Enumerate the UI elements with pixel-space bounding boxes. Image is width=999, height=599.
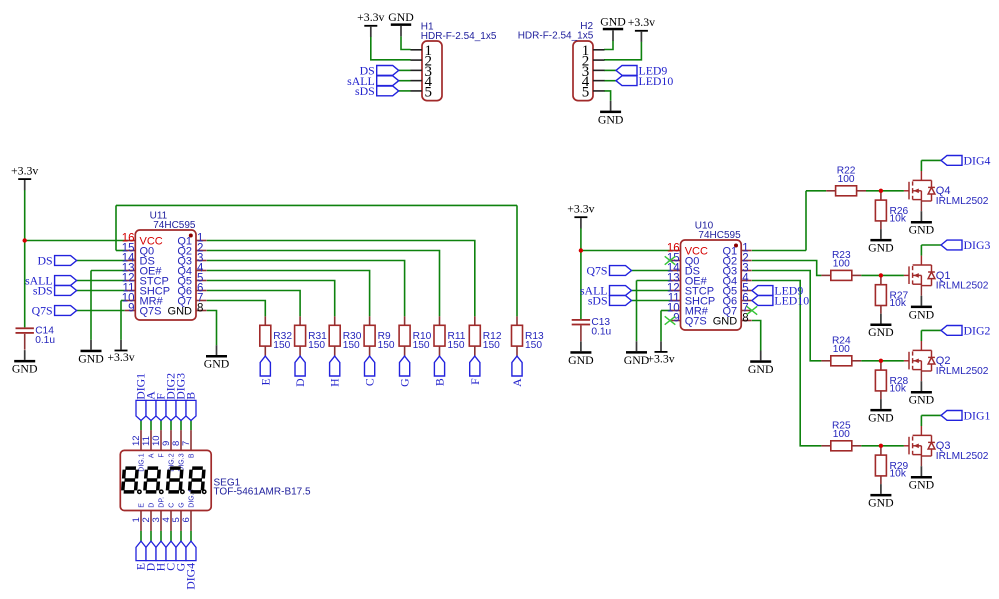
svg-text:E: E [139,503,146,508]
net flag DIG4 at SEG1 bottom [186,541,196,561]
ground H2 pin5 GND [598,101,624,127]
wire SEG1 top pin 8 [180,421,182,431]
7-segment display SEG1 TOF-5461AMR-B17.5 [120,373,311,590]
capacitor C13 [572,317,612,341]
wire DS to U11 pin14 [77,260,125,262]
header H2 HDR-F-2.54_1x5 [573,41,605,101]
svg-text:+3.3v: +3.3v [567,202,594,216]
wire U10 Q3 to R24 [752,271,822,361]
pin 7 (Q7) of U11 [196,300,207,302]
IC U11 74HC595 [122,211,207,321]
wire +3.3v to U11 VCC [25,240,125,242]
svg-text:C: C [169,503,176,508]
svg-text:IRLML2502: IRLML2502 [936,281,989,292]
no-connect X U10 Q7 [747,306,758,314]
svg-text:GND: GND [12,362,38,376]
decimal point dp1 [138,490,141,493]
svg-text:150: 150 [413,340,430,351]
net flag sDS at U11 [33,284,77,298]
resistor R26 [875,193,908,229]
svg-text:Q7S: Q7S [32,304,53,318]
wire Q7S to U11 pin9 [77,310,125,312]
net flag sALL at U10 [580,284,632,298]
svg-text:GND: GND [600,15,626,29]
svg-text:Q7S: Q7S [587,264,608,278]
svg-text:IRLML2502: IRLML2502 [936,366,989,377]
net flag G at SEG1 bottom [176,541,186,561]
pin 8 (GND) of U11 [196,310,207,312]
ground Q2 source GND [909,381,935,407]
wire sDS to U11 SHCP [77,290,125,292]
wire gate net y=275.4 [861,274,904,276]
wire +3.3v to H2 pin2 [604,42,641,60]
resistor R25 [821,420,861,450]
svg-text:H: H [328,378,342,387]
svg-text:10k: 10k [890,298,907,309]
resistor R9 [364,316,395,356]
wire U11 Q0 riser [115,205,117,250]
pin 15 (Q0) of U10 [670,260,681,262]
pin 9 (Q7S) of U10 [670,320,681,322]
wire U10 GND [752,321,761,351]
net flag DIG3 at SEG1 top [176,400,186,420]
svg-text:HDR-F-2.54_1x5: HDR-F-2.54_1x5 [421,31,497,42]
svg-text:GND: GND [909,223,935,237]
net flag DIG4 [941,154,990,168]
net flag D (segment net) [293,356,307,387]
net flag DIG3 [941,238,990,252]
ground R27 GND [868,314,894,340]
wire H2 pin5 to GND [604,91,611,101]
pin 1 (E) of SEG1 [140,511,142,531]
svg-text:Q7S: Q7S [685,315,707,327]
wire U10 Q1 lead [752,250,806,252]
wire sALL to U11 STCP [77,280,125,282]
pin 4 (Q4) of U10 [741,280,752,282]
net flag DIG2 at SEG1 top [166,400,176,420]
svg-text:B: B [189,453,196,458]
ground H2 GND [600,15,626,41]
svg-text:sDS: sDS [588,294,608,308]
pin 5 (Q5) of U11 [196,280,207,282]
decimal point dp2 [160,490,163,493]
wire Q2-R11 [207,251,440,317]
pin 7 (B) of SEG1 [190,430,192,450]
wire SEG1 bottom pin 2 [150,531,152,541]
net flag B at SEG1 top [186,400,196,420]
wire Q3-R10 [207,261,405,317]
wire U11 GND [207,311,217,346]
svg-text:150: 150 [483,340,500,351]
wire U10 OE# to GND [636,281,638,342]
pin 8 (DIG.3) of SEG1 [180,430,182,450]
svg-text:DIG2: DIG2 [964,324,991,338]
pin 6 (DIG.4) of SEG1 [190,511,192,531]
net flag sALL [347,74,399,88]
7-seg digit 2 [145,468,159,492]
svg-text:G: G [398,378,412,387]
svg-text:sDS: sDS [33,284,53,298]
svg-text:DIG1: DIG1 [964,409,991,423]
decimal point dp4 [203,490,206,493]
wire drain riser y=445.8 [920,415,922,426]
net flag sDS [355,84,399,98]
pin 14 (DS) of U10 [670,270,681,272]
wire SEG1 top pin 11 [150,421,152,431]
svg-text:0.1u: 0.1u [35,335,55,346]
svg-text:+3.3v: +3.3v [628,15,655,29]
net flag DIG1 [941,409,990,423]
pin 12 (STCP) of U10 [670,290,681,292]
7-seg digit 3 [167,468,181,492]
junction R25/R29 junction [879,444,883,448]
svg-text:5: 5 [425,84,433,100]
header H1 HDR-F-2.54_1x5 [411,41,443,101]
svg-text:TOF-5461AMR-B17.5: TOF-5461AMR-B17.5 [214,487,312,498]
ground Q1 source GND [909,296,935,322]
resistor R32 [260,316,293,356]
wire Q1 riser to R22 [805,191,807,251]
junction R24/R28 junction [879,359,883,363]
svg-text:+3.3v: +3.3v [107,350,134,364]
resistor R10 [399,316,432,356]
svg-text:0.1u: 0.1u [591,327,611,338]
net flag DS [360,64,399,78]
pin 10 (MR#) of U10 [670,310,681,312]
svg-text:+3.3v: +3.3v [11,163,38,177]
net flag sALL at U11 [25,274,77,288]
pin 4 of H2 [593,80,605,82]
transistor Q4 IRLML2502 [904,171,935,211]
wire U10 Q4 to R25 [752,281,822,446]
pin 4 (Q4) of U11 [196,270,207,272]
resistor R23 [821,250,861,280]
pin 2 of H1 [411,59,423,61]
svg-text:10k: 10k [890,214,907,225]
svg-text:GND: GND [868,411,894,425]
svg-text:7: 7 [181,441,192,446]
net flag sDS at U10 [588,294,632,308]
svg-text:100: 100 [833,344,850,355]
resistor R28 [875,363,908,399]
power +3.3v H2 +3.3v [628,15,655,42]
wire DIG wire y=190.8 [921,159,941,161]
wire drain riser y=275.4 [920,245,922,256]
resistor R30 [329,316,362,356]
wire SEG1 bottom pin 5 [180,531,182,541]
svg-text:GND: GND [168,305,193,317]
net flag DIG1 at SEG1 top [136,400,146,420]
svg-text:GND: GND [78,351,104,365]
wire U11 OE# to GND [90,271,92,340]
ground R26 GND [868,229,894,255]
net flag Q7S at U11 [32,304,77,318]
svg-text:GND: GND [568,353,594,367]
ground C14 GND [12,350,38,376]
net flag G (segment net) [398,356,412,387]
net flag E (segment net) [258,356,272,385]
pin 5 (Q5) of U10 [741,290,752,292]
svg-text:E: E [258,378,272,385]
wire drain riser y=360.8 [920,330,922,341]
svg-text:150: 150 [308,340,325,351]
pin 16 (VCC) of U10 [670,250,681,252]
wire sDS to H1 pin5 [399,90,411,92]
pin 2 (Q2) of U10 [741,260,752,262]
svg-text:C: C [363,378,377,386]
resistor R27 [875,277,908,313]
ground H1 GND [388,10,414,36]
net flag E at SEG1 bottom [136,541,146,561]
wire DS to H1 pin3 [399,69,411,71]
junction R22/R26 junction [879,189,883,193]
pin 3 of H1 [411,69,423,71]
svg-text:8: 8 [197,303,203,315]
pin 13 (OE#) of U10 [670,280,681,282]
ground U11 OE# GND [78,340,104,366]
wire LED10 to H2 pin4 [604,80,616,82]
svg-text:100: 100 [838,174,855,185]
svg-text:DIG3: DIG3 [964,238,991,252]
ground R28 GND [868,399,894,425]
svg-text:DIG.1: DIG.1 [139,453,146,471]
net flag LED9 [616,64,667,78]
wire +3.3v to U10 VCC [581,250,670,252]
ground U10 OE# GND [624,341,650,367]
pin 2 (Q2) of U11 [196,250,207,252]
wire to R22 [806,190,826,192]
junction +3.3v/U11 VCC [23,238,27,242]
wire GND to H2 pin1 [604,40,613,49]
svg-text:F: F [468,378,482,385]
net flag LED9 at U10 [752,284,803,298]
pin 5 (G) of SEG1 [180,511,182,531]
wire SEG1 top pin 9 [170,421,172,431]
svg-text:A: A [149,453,156,458]
net flag C at SEG1 bottom [166,541,176,561]
svg-text:HDR-F-2.54_1x5: HDR-F-2.54_1x5 [518,31,594,42]
svg-text:GND: GND [909,307,935,321]
wire Q5-R30 [207,281,335,317]
wire U11 OE# lead [91,270,125,272]
pin 14 (DS) of U11 [125,260,136,262]
net flag LED10 at U10 [752,294,809,308]
svg-text:150: 150 [378,340,395,351]
pin 3 (Q3) of U10 [741,270,752,272]
wire U11 MR# lead [121,300,125,302]
pin 15 (Q0) of U11 [125,250,136,252]
resistor R11 [434,316,466,356]
transistor Q1 IRLML2502 [904,256,935,296]
wire DIG wire y=360.8 [921,329,941,331]
wire SEG1 bottom pin 1 [140,531,142,541]
ground U10 pin8 GND [748,351,774,377]
svg-text:GND: GND [624,353,650,367]
wire drain riser y=190.8 [920,160,922,171]
net flag Q7S at U10 [587,264,632,278]
pin 2 of H2 [593,59,605,61]
ground Q4 source GND [909,211,935,237]
decimal point dp3 [181,490,184,493]
svg-text:B: B [433,378,447,386]
7-seg digit 1 [123,468,137,492]
wire Q6-R31 [207,291,300,317]
svg-text:GND: GND [909,393,935,407]
svg-text:A: A [510,378,524,387]
wire U10 OE# lead [637,280,671,282]
svg-text:IRLML2502: IRLML2502 [936,196,989,207]
resistor R31 [295,316,328,356]
net flag C (segment net) [363,356,377,386]
resistor R13 [512,316,545,356]
ground R29 GND [868,484,894,510]
svg-text:+3.3v: +3.3v [647,352,674,366]
pin 3 (DP.) of SEG1 [160,511,162,531]
svg-text:GND: GND [868,325,894,339]
wire Q0 net to R13 [116,204,517,206]
wire SEG1 bottom pin 3 [160,531,162,541]
wire Q4-R9 [207,271,370,317]
wire SEG1 bottom pin 6 [190,531,192,541]
pin 11 (SHCP) of U10 [670,300,681,302]
ground C13 GND [568,341,594,367]
net flag H at SEG1 bottom [156,541,166,561]
power +3.3v U11 MR# +3.3v [107,340,134,364]
ground U11 pin8 GND [204,345,230,371]
pin 10 (F) of SEG1 [160,430,162,450]
wire Q7-R32 [207,301,266,317]
svg-text:GND: GND [204,357,230,371]
pin 3 of H2 [593,69,605,71]
net flag DS at U11 [38,254,77,268]
power +3.3v right rail +3.3v [567,202,594,229]
svg-text:GND: GND [598,112,624,126]
svg-text:9: 9 [673,313,679,325]
7-seg digit 4 [190,468,204,492]
wire gate net y=190.8 [866,190,904,192]
wire GND to H1 pin1 [401,37,411,50]
no-connect X U10 Q0 [665,256,676,264]
svg-text:6: 6 [181,517,192,522]
svg-text:GND: GND [748,362,774,376]
wire gate net y=360.8 [861,360,904,362]
wire R13 drop [516,205,518,316]
svg-text:GND: GND [713,315,738,327]
wire Q1-R12 [207,241,475,317]
svg-text:100: 100 [833,429,850,440]
wire DIG wire y=275.4 [921,244,941,246]
no-connect X U10 Q7S [665,316,676,324]
resistor R12 [469,316,502,356]
svg-text:F: F [159,453,166,457]
wire SEG1 top pin 10 [160,421,162,431]
pin 1 of H2 [593,49,605,51]
svg-text:LED10: LED10 [774,294,809,308]
pin 9 (Q7S) of U11 [125,310,136,312]
pin 11 (A) of SEG1 [150,430,152,450]
net flag D at SEG1 bottom [146,541,156,561]
wire gate net y=445.8 [861,445,904,447]
net flag DIG2 [941,324,990,338]
net flag B (segment net) [433,356,447,386]
pin 1 (Q1) of U11 [196,240,207,242]
transistor Q3 IRLML2502 [904,426,935,466]
wire Q7S to U10 DS [632,270,671,272]
junction R23/R27 junction [879,273,883,277]
wire sDS to U10 SHCP [632,300,671,302]
wire U10 MR# lead [661,310,670,312]
svg-text:LED10: LED10 [639,74,674,88]
pin 6 (Q6) of U11 [196,290,207,292]
net flag H (segment net) [328,356,342,387]
pin 5 of H2 [593,90,605,92]
svg-text:GND: GND [868,241,894,255]
power +3.3v U10 MR# +3.3v [647,341,674,365]
pin 1 of H1 [411,49,423,51]
pin 8 (GND) of U10 [741,320,752,322]
net flag A (segment net) [510,356,524,387]
svg-text:GND: GND [868,496,894,510]
svg-text:100: 100 [833,259,850,270]
ground Q3 source GND [909,466,935,492]
pin 4 of H1 [411,80,423,82]
pin 7 (Q7) of U10 [741,310,752,312]
pin 5 of H1 [411,90,423,92]
svg-text:Q7S: Q7S [140,305,162,317]
pin 3 (Q3) of U11 [196,260,207,262]
wire DIG wire y=445.8 [921,414,941,416]
svg-text:10k: 10k [890,469,907,480]
resistor R29 [875,448,908,484]
pin 6 (Q6) of U10 [741,300,752,302]
net flag F (segment net) [468,356,482,385]
svg-text:5: 5 [582,84,590,100]
wire sALL to U10 STCP [632,290,671,292]
svg-text:GND: GND [909,478,935,492]
pin 9 (DIG.2) of SEG1 [170,430,172,450]
power +3.3v left rail +3.3v [11,163,38,190]
svg-text:9: 9 [128,303,134,315]
resistor R24 [821,335,861,365]
svg-text:D: D [149,503,156,508]
svg-text:DP.: DP. [159,497,166,508]
wire SEG1 top pin 7 [190,421,192,431]
pin 16 (VCC) of U11 [125,240,136,242]
svg-text:+3.3v: +3.3v [357,10,384,24]
junction +3.3v/U10 VCC [579,248,583,252]
wire U10 MR# to +3.3v [660,311,662,342]
svg-text:150: 150 [525,340,542,351]
svg-text:150: 150 [273,340,290,351]
pin 4 (C) of SEG1 [170,511,172,531]
resistor R22 [826,165,866,195]
svg-text:IRLML2502: IRLML2502 [936,451,989,462]
svg-text:DIG4: DIG4 [964,154,991,168]
svg-text:10k: 10k [890,384,907,395]
wire U10 Q2 to R23 [752,261,822,276]
power +3.3v H1 +3.3v [357,10,384,37]
svg-text:DIG4: DIG4 [183,563,197,590]
svg-text:sDS: sDS [355,84,375,98]
svg-text:DS: DS [38,254,53,268]
net flag LED10 [616,74,673,88]
wire SEG1 top pin 12 [140,421,142,431]
svg-text:D: D [293,378,307,387]
capacitor C14 [16,326,56,350]
pin 13 (OE#) of U11 [125,270,136,272]
wire U11 MR# to +3.3v [120,301,122,340]
wire U11 Q0 lead [116,250,125,252]
